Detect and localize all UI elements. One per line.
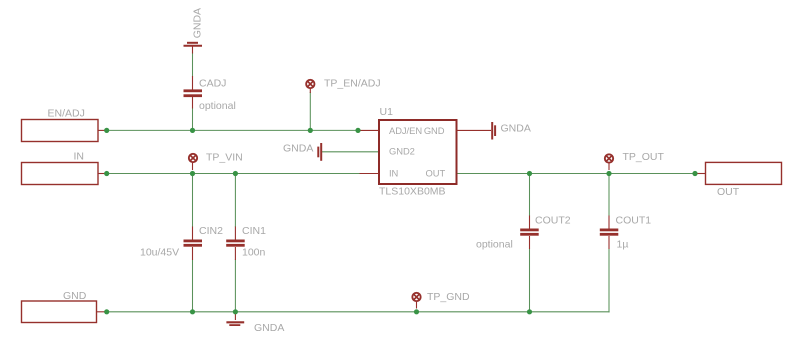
pin IN <box>360 167 399 178</box>
junction GND at CIN2 <box>190 309 195 314</box>
connector IN <box>22 151 106 185</box>
svg-text:GNDA: GNDA <box>283 143 313 155</box>
pin ADJ/EN <box>358 125 422 136</box>
junction GND at connector <box>104 309 109 314</box>
wire COUT2 branch lower <box>529 249 531 312</box>
capacitor COUT2 <box>476 215 571 251</box>
svg-text:1µ: 1µ <box>617 239 629 251</box>
wire CADJ branch lower <box>192 108 194 131</box>
wire TP_EN/ADJ branch <box>309 92 311 130</box>
svg-text:GNDA: GNDA <box>192 8 204 38</box>
junction IN at CIN2 <box>190 171 195 176</box>
junction EN/ADJ at U1 pin <box>355 128 360 133</box>
svg-text:100n: 100n <box>242 247 266 259</box>
wire CADJ branch upper <box>192 53 194 78</box>
junction OUT at connector <box>692 171 697 176</box>
wire COUT1 branch lower <box>608 249 610 313</box>
svg-text:GND: GND <box>63 290 87 302</box>
junction GND at TP_GND <box>414 309 419 314</box>
svg-text:CIN2: CIN2 <box>199 225 223 237</box>
junction EN/ADJ at TP <box>308 128 313 133</box>
svg-text:TP_VIN: TP_VIN <box>206 152 243 164</box>
svg-text:COUT2: COUT2 <box>535 215 571 227</box>
wire GND2 to GNDA <box>322 151 379 153</box>
svg-text:TLS10XB0MB: TLS10XB0MB <box>379 186 446 198</box>
wire CIN1 branch upper <box>234 174 236 228</box>
junction IN at CIN1 <box>233 171 238 176</box>
wire GND net horizontal <box>104 311 610 313</box>
svg-text:U1: U1 <box>380 106 394 118</box>
capacitor CIN1 <box>226 225 266 260</box>
svg-text:TP_OUT: TP_OUT <box>623 151 665 163</box>
connector EN/ADJ <box>22 108 106 142</box>
wire CIN1 branch lower <box>234 260 236 312</box>
junction OUT at COUT2 <box>527 171 532 176</box>
svg-text:COUT1: COUT1 <box>616 215 652 227</box>
svg-text:optional: optional <box>476 239 513 251</box>
svg-text:GNDA: GNDA <box>501 123 531 135</box>
capacitor COUT1 <box>600 215 651 251</box>
connector OUT <box>698 162 782 198</box>
connector GND <box>22 290 106 323</box>
svg-text:IN: IN <box>74 151 85 163</box>
wire COUT2 branch upper <box>529 174 531 217</box>
wire CIN2 branch upper <box>192 174 194 228</box>
capacitor CADJ <box>184 76 236 112</box>
svg-text:CIN1: CIN1 <box>242 225 266 237</box>
svg-text:ADJ/EN: ADJ/EN <box>389 125 422 136</box>
junction EN/ADJ at CADJ <box>190 128 195 133</box>
svg-text:GND: GND <box>424 125 445 136</box>
junction OUT at COUT1 <box>606 171 611 176</box>
capacitor CIN2 <box>140 225 223 260</box>
testpoint TP_EN/ADJ <box>306 78 380 93</box>
wire CIN2 branch lower <box>192 260 194 312</box>
svg-text:CADJ: CADJ <box>199 78 226 90</box>
wire COUT1 branch upper <box>608 174 610 217</box>
wire IN net horizontal <box>104 173 360 175</box>
svg-text:10u/45V: 10u/45V <box>140 247 179 259</box>
svg-text:EN/ADJ: EN/ADJ <box>48 108 85 120</box>
pin OUT <box>426 167 446 178</box>
ground GNDA left of U1 GND2 pin <box>283 143 321 161</box>
svg-text:TP_EN/ADJ: TP_EN/ADJ <box>324 78 381 90</box>
wire OUT net horizontal <box>457 173 699 175</box>
op-amp U1 TLS10XB0MB <box>379 106 457 198</box>
testpoint TP_GND <box>412 291 470 309</box>
junction EN/ADJ at connector <box>104 128 109 133</box>
svg-text:OUT: OUT <box>426 167 446 178</box>
pin GND <box>424 125 491 136</box>
ground GNDA bottom <box>226 312 284 334</box>
svg-text:optional: optional <box>199 100 236 112</box>
svg-text:GNDA: GNDA <box>254 322 284 334</box>
ground GNDA top <box>184 8 204 54</box>
svg-text:TP_GND: TP_GND <box>427 291 470 303</box>
wire EN/ADJ net horizontal <box>104 129 358 131</box>
ground GNDA right of U1 GND pin <box>492 122 531 140</box>
junction IN at connector <box>104 171 109 176</box>
pin GND2 <box>389 145 415 156</box>
testpoint TP_OUT <box>605 151 665 170</box>
junction GND at CIN1 <box>233 309 238 314</box>
junction GND at COUT2 <box>527 309 532 314</box>
svg-text:GND2: GND2 <box>389 145 415 156</box>
testpoint TP_VIN <box>189 152 243 170</box>
svg-text:OUT: OUT <box>717 186 740 198</box>
svg-text:IN: IN <box>389 167 398 178</box>
